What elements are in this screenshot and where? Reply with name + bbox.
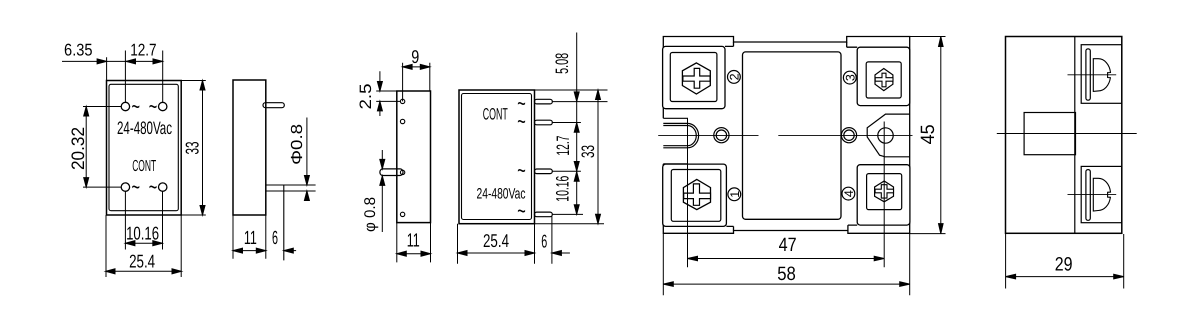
AC mark top-left (131, 93, 140, 120)
AC mark pin3 (517, 157, 526, 184)
svg-text:45: 45 (918, 124, 939, 144)
svg-text:4: 4 (842, 190, 856, 197)
body outline front view (107, 81, 182, 216)
svg-text:29: 29 (1055, 255, 1073, 276)
extension lines right of pins (535, 90, 608, 224)
dim 12.7 (107, 40, 163, 102)
bottom screw center line (1068, 194, 1117, 196)
svg-text:~: ~ (131, 93, 140, 120)
dim 6.35 (62, 40, 107, 80)
svg-text:~: ~ (149, 93, 158, 120)
dim 2.5 (357, 71, 400, 116)
label 24-480Vac view 2 (477, 186, 526, 203)
side view top pin (263, 103, 284, 108)
dim chain 5.08 / 12.7 / 10.16 (552, 33, 579, 215)
svg-text:20.32: 20.32 (68, 127, 88, 170)
svg-text:12.7: 12.7 (130, 40, 156, 59)
dim 25.4 view 2 (458, 216, 552, 263)
base hub block (1024, 113, 1075, 155)
AC mark pin1 (517, 90, 526, 117)
svg-text:11: 11 (244, 228, 257, 249)
svg-text:10.16: 10.16 (552, 176, 572, 202)
pin 2 stub (535, 120, 553, 125)
svg-text:~: ~ (149, 174, 158, 201)
AC mark bottom-right (149, 174, 158, 201)
body inner cover line (109, 84, 178, 210)
horizontal center line (658, 134, 912, 136)
AC mark pin4 (517, 198, 526, 225)
svg-text:3: 3 (843, 74, 857, 81)
terminal 2 outer box (663, 42, 734, 109)
mounting slot inner (663, 126, 696, 146)
front view 2 body (459, 90, 535, 224)
svg-text:11: 11 (407, 230, 420, 251)
terminal number 2 (727, 71, 741, 84)
svg-text:25.4: 25.4 (129, 251, 155, 272)
AC mark pin2 (517, 108, 526, 135)
svg-text:33: 33 (578, 145, 598, 158)
terminal 2 inner box (670, 53, 717, 102)
top terminal screw head (1093, 59, 1110, 92)
dim phi 0.8 (362, 150, 385, 232)
terminal number 1 (728, 188, 742, 201)
dim 33 view 2 (578, 90, 601, 224)
svg-text:~: ~ (517, 157, 526, 184)
terminal 4 outer box (848, 165, 910, 231)
panel body outline (663, 37, 909, 234)
terminal 1 outer box (663, 164, 734, 230)
indicator hole left (714, 128, 729, 143)
dim 45 (910, 37, 946, 234)
label 24-480Vac (117, 118, 172, 138)
pin 2 top-right (159, 102, 167, 110)
pin 4 stub (535, 212, 553, 217)
pin hole 4 (400, 212, 404, 216)
dim 10.16 (125, 192, 162, 250)
svg-text:5.08: 5.08 (552, 53, 572, 74)
svg-text:2: 2 (727, 73, 741, 80)
svg-text:6: 6 (541, 230, 547, 251)
front view 2 inner cover line (462, 94, 532, 220)
svg-text:6: 6 (272, 228, 278, 249)
top terminal washer (1086, 49, 1090, 100)
dim 58 (663, 234, 909, 295)
svg-text:58: 58 (777, 264, 796, 285)
dim 6 view 2 (541, 230, 570, 255)
pin stub (380, 169, 403, 176)
top terminal block (1081, 45, 1122, 104)
terminal 1 inner box (671, 170, 721, 222)
internal divider (1074, 37, 1076, 234)
center cover rectangle (743, 52, 842, 219)
pin hole 2 (400, 119, 404, 123)
bottom terminal block (1081, 166, 1122, 222)
svg-text:6.35: 6.35 (64, 40, 93, 59)
dim 33 front (181, 81, 206, 216)
dim 9 (403, 46, 430, 101)
pin 4 bottom-right (159, 183, 167, 191)
svg-text:33: 33 (182, 142, 203, 155)
pin 1 stub (535, 99, 553, 104)
svg-text:9: 9 (411, 46, 419, 67)
mounting slot outer (663, 123, 698, 147)
extension line left mounting axis (687, 119, 689, 268)
terminal 1 screw (683, 179, 710, 209)
svg-text:1: 1 (728, 191, 742, 198)
dim 29 (1006, 234, 1124, 289)
pin hole 3 (400, 170, 404, 174)
svg-text:~: ~ (517, 198, 526, 225)
terminal 4 inner box (867, 174, 902, 210)
svg-text:12.7: 12.7 (553, 136, 573, 156)
mounting ear right (867, 114, 910, 157)
dim 6 side view (272, 228, 296, 253)
side view bottom pin with extension lines (266, 185, 316, 260)
dim 20.32 (68, 107, 121, 188)
dim Phi 0.8 (289, 118, 310, 201)
dim 11 side view (233, 215, 266, 259)
svg-text:2.5: 2.5 (357, 84, 375, 110)
terminal 4 screw (875, 181, 894, 202)
svg-text:φ 0.8: φ 0.8 (362, 197, 379, 232)
terminal number 4 (842, 187, 856, 200)
svg-text:10.16: 10.16 (126, 222, 159, 243)
svg-text:24-480Vac: 24-480Vac (117, 118, 172, 138)
AC mark top-right (149, 93, 158, 120)
terminal 2 screw (682, 63, 710, 94)
pin hole 1 (400, 99, 404, 103)
terminal 3 inner box (866, 62, 901, 98)
pin-side view body (397, 91, 431, 223)
dim 25.4 (106, 215, 182, 277)
svg-text:Φ0.8: Φ0.8 (289, 124, 306, 165)
top screw center line (1068, 74, 1117, 76)
dim 11 pin-side view (397, 223, 431, 263)
svg-text:47: 47 (779, 235, 797, 256)
extension line right mounting axis (883, 122, 885, 268)
terminal number 3 (843, 71, 857, 84)
svg-text:~: ~ (517, 108, 526, 135)
label CONT view 2 (483, 105, 508, 123)
pin 3 bottom-left (121, 183, 129, 191)
svg-text:25.4: 25.4 (483, 230, 509, 251)
terminal 3 outer box (847, 42, 910, 106)
pin 3 stub (535, 169, 553, 174)
pin 1 top-left (121, 102, 129, 110)
bottom terminal screw head (1093, 178, 1110, 211)
svg-text:~: ~ (131, 174, 140, 201)
side body (1006, 37, 1122, 234)
svg-text:CONT: CONT (132, 158, 156, 175)
main center line (997, 133, 1137, 135)
label CONT (132, 158, 156, 175)
dim 47 (688, 235, 885, 261)
bottom terminal washer (1086, 170, 1090, 221)
indicator hole right (841, 128, 856, 143)
side view body (233, 80, 266, 215)
mounting slot ledge lines (663, 118, 688, 164)
svg-text:CONT: CONT (483, 105, 508, 123)
terminal 3 screw (875, 69, 893, 91)
AC mark bottom-left (131, 174, 140, 201)
